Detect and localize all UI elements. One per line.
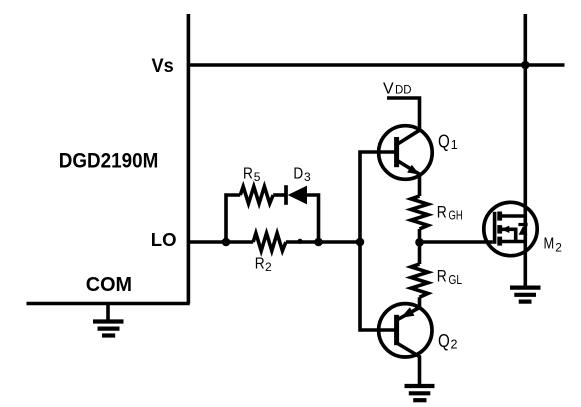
svg-text:R: R [243, 165, 253, 182]
svg-text:DD: DD [395, 85, 412, 97]
svg-text:Vs: Vs [152, 56, 174, 77]
svg-text:1: 1 [451, 138, 458, 152]
svg-text:2: 2 [555, 241, 562, 255]
svg-text:2: 2 [451, 337, 458, 351]
svg-text:5: 5 [254, 170, 261, 184]
svg-text:R: R [437, 203, 447, 221]
svg-text:COM: COM [86, 274, 132, 296]
svg-text:V: V [383, 81, 394, 98]
svg-text:Q: Q [438, 330, 450, 351]
svg-text:GL: GL [449, 273, 463, 287]
svg-text:GH: GH [449, 209, 463, 223]
svg-text:Q: Q [438, 130, 450, 151]
svg-text:R: R [437, 268, 447, 286]
svg-text:D: D [293, 165, 303, 182]
svg-text:2: 2 [265, 260, 272, 274]
svg-text:R: R [255, 256, 265, 273]
svg-text:LO: LO [151, 229, 177, 250]
svg-text:M: M [544, 236, 555, 253]
svg-text:3: 3 [304, 170, 311, 184]
svg-text:DGD2190M: DGD2190M [59, 150, 159, 173]
